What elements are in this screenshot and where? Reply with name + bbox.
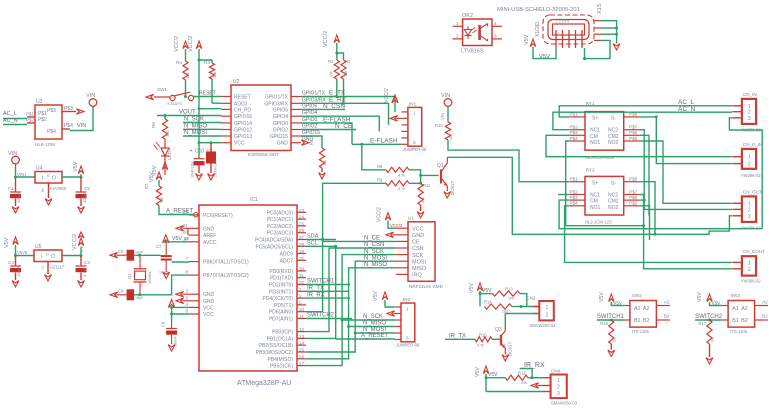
connector JN2 JUMPER-06	[401, 303, 415, 342]
wire P$4 to VIN node	[70, 106, 93, 131]
svg-text:RY2: RY2	[586, 167, 595, 172]
svg-text:V5V: V5V	[613, 300, 623, 305]
svg-text:1 2 3 4 5: 1 2 3 4 5	[556, 20, 569, 24]
svg-text:GPIO15: GPIO15	[302, 130, 320, 136]
SW2 pin stubs	[623, 305, 630, 307]
wire N_MOSI IC1 pin15 to U1 MOSI	[306, 261, 396, 352]
wire RY2 P$7 join	[639, 195, 732, 269]
wire CN2 pin2 to Q3 collector	[505, 314, 539, 328]
net AC_N wire to CN_IN 2	[553, 112, 732, 130]
svg-text:2: 2	[748, 110, 751, 116]
wire JN2 N_MOSI	[355, 332, 395, 334]
svg-text:1: 1	[456, 21, 459, 26]
ground X1 shield	[613, 44, 620, 50]
resistor R13	[480, 293, 492, 295]
svg-text:N_CSN: N_CSN	[364, 242, 384, 248]
svg-text:RY1: RY1	[586, 101, 595, 106]
svg-text:P$6: P$6	[629, 130, 638, 135]
svg-text:CN2: CN2	[526, 296, 536, 301]
resistor R14	[484, 304, 512, 309]
svg-text:V5V: V5V	[524, 34, 530, 45]
svg-text:10k: 10k	[323, 160, 327, 166]
RY1 right pin stubs	[624, 116, 640, 118]
svg-text:V5V: V5V	[539, 54, 550, 60]
svg-text:BC817: BC817	[508, 342, 513, 356]
svg-text:100uF: 100uF	[16, 265, 21, 277]
module U2 ESP8266-SMT	[231, 85, 291, 151]
gnd arrow CN4 pin2	[531, 383, 539, 388]
ground C5	[210, 164, 212, 174]
wire R12 to CN4 pin1	[528, 377, 543, 379]
svg-text:P$3: P$3	[570, 195, 579, 200]
wire VCC rail down to ESP VCC and C10	[198, 60, 200, 157]
resistor R9	[386, 181, 409, 186]
power module U3 HLK-10W	[35, 105, 62, 139]
svg-text:V5V: V5V	[469, 283, 475, 293]
X1 shield pins right	[594, 20, 601, 22]
svg-text:VIN: VIN	[8, 151, 17, 157]
svg-text:NC2: NC2	[608, 192, 618, 198]
svg-text:OK2: OK2	[462, 13, 473, 19]
wire C9 to XTAL2	[134, 275, 189, 295]
wire trunk riser to RY2 S-	[639, 182, 655, 235]
supply V5V arrow U5 input	[13, 237, 18, 245]
svg-text:SWITCH2: SWITCH2	[307, 313, 335, 319]
svg-text:VIN: VIN	[440, 113, 445, 120]
wire SCL to pin13 via harness	[306, 246, 336, 338]
svg-text:AZ1117: AZ1117	[50, 265, 65, 270]
svg-text:PD0(RXD): PD0(RXD)	[269, 269, 293, 275]
ground R11	[420, 205, 422, 211]
svg-text:ATMega328P-AU: ATMega328P-AU	[237, 380, 291, 387]
svg-text:ESP8266-SMT: ESP8266-SMT	[248, 152, 279, 157]
svg-text:PB2(SS/OC1B): PB2(SS/OC1B)	[259, 343, 294, 349]
svg-text:CN4: CN4	[551, 369, 561, 374]
svg-text:IR_RX: IR_RX	[307, 292, 325, 298]
svg-text:P$4: P$4	[570, 201, 579, 206]
wire N_CE IC1 pin10 to U1 CE	[306, 241, 396, 311]
svg-text:6: 6	[413, 140, 416, 145]
svg-text:GPIO0: GPIO0	[273, 121, 289, 127]
ground C10	[198, 165, 200, 173]
pin P$1 AC_L	[27, 116, 35, 118]
microcontroller IC1 ATMega328P-AU	[199, 205, 297, 371]
svg-text:N_MISO: N_MISO	[184, 123, 207, 129]
wire RESET from SW1 to U2	[194, 96, 221, 98]
svg-text:P$4: P$4	[570, 136, 579, 141]
wire A_RESET to JN2 pin6	[336, 338, 395, 340]
svg-text:ADC0: ADC0	[234, 101, 248, 107]
svg-text:A2: A2	[762, 300, 768, 305]
svg-text:JUMPER-06: JUMPER-06	[403, 147, 427, 152]
supply node VIN circle	[89, 99, 97, 107]
svg-text:PB3(MOSI/OC2): PB3(MOSI/OC2)	[256, 350, 294, 356]
svg-text:CM: CM	[590, 199, 598, 205]
wire SW1 left	[154, 96, 170, 98]
gnd arrow JN2 pin2	[387, 311, 395, 316]
svg-text:1: 1	[748, 201, 751, 207]
svg-text:C6: C6	[161, 321, 166, 327]
svg-text:PC2(ADC2): PC2(ADC2)	[267, 224, 294, 230]
svg-text:PC0(ADC0): PC0(ADC0)	[267, 210, 294, 216]
svg-text:AC_N: AC_N	[3, 118, 18, 124]
wire ADC0	[212, 102, 221, 104]
svg-text:CN_EOUT: CN_EOUT	[743, 249, 765, 254]
connector CN2 SMAW250-02	[533, 306, 539, 308]
svg-text:GPIO1/TX: GPIO1/TX	[302, 91, 326, 97]
svg-text:ADC6: ADC6	[280, 252, 294, 258]
net AC_L wire to CN_IN 1	[559, 106, 732, 117]
svg-text:N_SCK: N_SCK	[184, 117, 204, 123]
OK2 internal LED	[467, 26, 469, 29]
net SWITCH2 wire	[306, 318, 352, 320]
svg-text:GPIO5: GPIO5	[302, 103, 318, 109]
wire R9 to SDA net	[323, 183, 386, 239]
wire U4 output to V5V	[62, 176, 81, 178]
supply VCC/2 arrow right	[196, 41, 201, 49]
wire R13 to CN2 pin1	[520, 294, 539, 307]
svg-text:P$2: P$2	[570, 125, 579, 130]
svg-text:NC1: NC1	[590, 192, 600, 198]
svg-text:Q3: Q3	[495, 327, 502, 333]
wire AREF to gnd	[187, 228, 189, 235]
svg-text:YW396-02: YW396-02	[741, 278, 761, 283]
svg-text:ITS-1105: ITS-1105	[632, 329, 650, 334]
svg-text:AC_N: AC_N	[678, 106, 696, 113]
wire RY1 P$7 down	[639, 130, 732, 210]
svg-text:AVCC: AVCC	[203, 240, 217, 246]
svg-text:NC2: NC2	[608, 128, 618, 134]
svg-text:VCC/2: VCC/2	[384, 88, 390, 103]
svg-text:2: 2	[748, 267, 751, 273]
svg-text:Q1: Q1	[437, 163, 444, 169]
wire AC_N	[3, 124, 27, 126]
svg-text:4.7uF: 4.7uF	[82, 266, 87, 277]
ground C1	[15, 199, 17, 207]
supply VCC/2 arrow U1	[385, 213, 390, 221]
svg-text:330uF: 330uF	[16, 191, 21, 203]
svg-text:SCL: SCL	[307, 240, 318, 246]
regulator U5 AZ1117	[34, 250, 62, 262]
IC1 left pin stubs	[189, 214, 199, 216]
capacitor C3	[80, 256, 82, 267]
svg-text:U1: U1	[408, 216, 414, 221]
svg-text:A_RESET: A_RESET	[166, 209, 194, 215]
svg-text:IT-1187S: IT-1187S	[166, 101, 182, 106]
wire V5V rail IR TX	[479, 291, 481, 307]
wire V5V to U5 input	[16, 245, 35, 256]
svg-text:IC1: IC1	[250, 197, 258, 203]
wire RY1 P$3 to CN_E_IN 1	[546, 135, 732, 156]
supply V5V arrow LED1	[164, 156, 166, 175]
net SWITCH2 wire SW3	[695, 319, 722, 321]
supply VCC/2 arrow left	[183, 41, 188, 49]
svg-text:GPIO1/TX: GPIO1/TX	[265, 95, 289, 101]
RY2 left pin stubs	[569, 181, 585, 183]
svg-text:SW2: SW2	[632, 293, 642, 298]
supply V5V arrow X1	[530, 39, 535, 47]
svg-text:B2: B2	[664, 314, 670, 319]
net SWITCH1 wire SW2	[597, 319, 624, 321]
ground R5	[321, 168, 323, 172]
RY2 right pin stubs	[624, 181, 640, 183]
supply V5V arrow SW2	[609, 294, 614, 302]
svg-text:2: 2	[748, 162, 751, 168]
wire to XTAL1 pin7	[172, 261, 189, 263]
svg-text:R12: R12	[518, 371, 526, 376]
wire V5V rail IR RX	[485, 374, 487, 392]
ground C7	[165, 261, 167, 273]
svg-text:V5V: V5V	[172, 236, 182, 242]
net label SCL	[306, 245, 336, 247]
OK2 pin wires	[453, 25, 463, 27]
wire VOUT to R6	[164, 116, 166, 120]
svg-text:3: 3	[185, 289, 188, 294]
svg-text:G: G	[46, 253, 49, 257]
svg-text:LTV816S: LTV816S	[461, 49, 484, 55]
U2 left pin stubs	[221, 96, 231, 98]
svg-text:P$3: P$3	[47, 108, 56, 114]
svg-text:A_RESET: A_RESET	[361, 333, 389, 339]
svg-text:R7: R7	[144, 183, 149, 189]
wire AC_L	[3, 118, 27, 120]
svg-text:C8: C8	[118, 249, 124, 254]
svg-text:R16: R16	[600, 321, 608, 326]
svg-text:PB7(XTAL2/TOSC2): PB7(XTAL2/TOSC2)	[203, 273, 249, 279]
svg-text:R11: R11	[423, 183, 431, 188]
net label N_MOSI	[183, 135, 221, 137]
svg-text:R2: R2	[328, 59, 334, 64]
svg-text:GND: GND	[203, 226, 215, 232]
svg-text:VCC: VCC	[203, 305, 214, 311]
svg-text:C3: C3	[84, 260, 90, 265]
svg-text:PD7(AIN1): PD7(AIN1)	[269, 317, 294, 323]
pin P$2 AC_N	[27, 122, 35, 124]
pin P$4 VIN output	[62, 128, 70, 130]
svg-text:1: 1	[546, 305, 549, 311]
svg-text:R13: R13	[505, 287, 513, 292]
svg-text:B1: B1	[634, 318, 641, 324]
svg-text:GPIO4: GPIO4	[302, 110, 318, 116]
capacitor C4	[15, 256, 17, 267]
svg-text:GND: GND	[203, 292, 215, 298]
svg-text:PC1(ADC1): PC1(ADC1)	[267, 217, 294, 223]
svg-text:2: 2	[546, 313, 549, 319]
svg-text:S+: S+	[592, 116, 598, 122]
svg-text:VIN: VIN	[441, 93, 450, 99]
svg-text:1: 1	[141, 264, 143, 268]
svg-text:GPIO4: GPIO4	[273, 114, 289, 120]
svg-text:P$3: P$3	[570, 130, 579, 135]
svg-text:R10: R10	[435, 123, 443, 128]
ground U5	[47, 262, 49, 275]
wire V5V to AVCC	[166, 241, 189, 243]
junction dots harness	[341, 319, 344, 322]
svg-text:NC1: NC1	[590, 128, 600, 134]
svg-text:CN_OUT: CN_OUT	[743, 189, 762, 194]
wire V5V to usb VBUS	[533, 47, 556, 59]
gnd arrow U1 GND	[386, 232, 394, 237]
svg-text:S+: S+	[592, 180, 598, 186]
svg-text:I: I	[42, 176, 43, 182]
resistor R12	[486, 377, 505, 379]
svg-text:R15: R15	[479, 332, 487, 337]
svg-text:AREF: AREF	[203, 233, 216, 239]
svg-text:10k: 10k	[344, 71, 348, 77]
supply node VIN circle 2	[12, 156, 20, 164]
svg-text:CN_E_IN: CN_E_IN	[743, 142, 762, 147]
connector CN_EOUT YW396-02	[742, 256, 756, 275]
svg-text:VCC/2: VCC/2	[174, 36, 180, 52]
svg-text:V5V: V5V	[73, 161, 79, 172]
connector CN_OUT YW396-03	[742, 196, 756, 222]
supply V5V arrow SW3	[707, 294, 712, 302]
svg-text:VCC/2: VCC/2	[72, 234, 78, 250]
svg-text:E-FLASH: E-FLASH	[370, 138, 398, 145]
svg-text:P$6: P$6	[629, 195, 638, 200]
svg-text:4: 4	[494, 21, 497, 26]
svg-text:3: 3	[748, 116, 751, 122]
supply V5V arrow JN2	[382, 292, 387, 300]
resistor R8	[386, 167, 409, 172]
wire R4 to RESET net	[185, 80, 187, 97]
ground R16	[610, 344, 612, 350]
ground C4	[15, 273, 17, 281]
svg-text:C4: C4	[8, 260, 14, 265]
svg-text:U2: U2	[233, 79, 240, 85]
svg-text:3: 3	[748, 214, 751, 220]
svg-text:18: 18	[184, 236, 189, 241]
svg-text:ADC7: ADC7	[280, 258, 294, 264]
svg-text:KIA7805: KIA7805	[50, 186, 67, 191]
svg-text:1: 1	[557, 378, 560, 384]
svg-text:O: O	[52, 176, 56, 182]
wire N_MISO IC1 pin16 to U1 MISO	[306, 268, 396, 359]
svg-text:PD6(AIN0): PD6(AIN0)	[269, 310, 294, 316]
svg-text:PD2(INT0): PD2(INT0)	[269, 283, 293, 289]
svg-text:GND: GND	[277, 141, 289, 147]
svg-text:HL3-2CM-A230: HL3-2CM-A230	[585, 155, 615, 160]
switch SW3 ITS-1105	[728, 301, 755, 328]
svg-text:4: 4	[185, 302, 188, 307]
svg-text:16MHz: 16MHz	[147, 271, 152, 284]
module U1 NRF24L01-SMD	[408, 222, 435, 281]
svg-text:10k: 10k	[185, 73, 190, 79]
wire crystal pin1	[139, 255, 141, 269]
svg-text:P$3: P$3	[64, 106, 73, 112]
svg-text:S-: S-	[611, 116, 616, 122]
svg-text:GPIO13: GPIO13	[234, 134, 252, 140]
svg-text:5: 5	[185, 295, 188, 300]
svg-text:R9: R9	[377, 178, 383, 183]
wire VCC from rail	[199, 142, 221, 144]
svg-text:47k: 47k	[422, 197, 426, 203]
ground C3	[80, 273, 82, 281]
svg-text:7: 7	[185, 256, 188, 261]
svg-text:R17: R17	[699, 321, 707, 326]
svg-text:A2: A2	[643, 306, 650, 312]
svg-text:JUMPER-06: JUMPER-06	[396, 343, 420, 348]
wire RY2 P$1 stub	[566, 181, 570, 183]
supply V5V arrow R7	[156, 172, 161, 180]
svg-text:VIN: VIN	[86, 93, 95, 99]
wire R10 to RY2 S+ trunk	[448, 140, 566, 182]
svg-text:R14: R14	[484, 300, 492, 305]
gnd arrow C9	[110, 292, 118, 297]
connector CN4 SMAW250-03	[551, 375, 567, 399]
wire N_SCK IC1 pin17 to U1 SCK	[306, 255, 396, 366]
svg-text:10k: 10k	[212, 72, 217, 78]
switch SW2 ITS-1105	[630, 301, 657, 328]
supply V5V arrow VCC pins	[168, 300, 175, 308]
svg-text:X1G$1: X1G$1	[535, 21, 541, 37]
svg-text:P$5: P$5	[629, 201, 638, 206]
gnd arrows IC1 pins 3 5	[176, 292, 184, 297]
svg-text:V5V: V5V	[149, 172, 155, 182]
svg-text:MOSI: MOSI	[412, 259, 427, 265]
svg-text:CSN: CSN	[412, 246, 424, 252]
svg-text:PB0(ICP): PB0(ICP)	[272, 330, 293, 336]
capacitor C6	[171, 322, 173, 329]
svg-text:VCC/2: VCC/2	[188, 36, 194, 52]
supply V5V arrow AVCC	[163, 235, 170, 243]
net IR_TX label stub	[445, 338, 475, 340]
svg-text:18pF: 18pF	[135, 296, 144, 300]
LED LED1	[164, 139, 166, 148]
svg-text:10k: 10k	[160, 197, 164, 203]
svg-text:2: 2	[456, 34, 459, 39]
supply VCC/2 arrow JN1	[392, 95, 398, 103]
svg-text:1: 1	[413, 111, 416, 116]
relay RY2 HL2-2CM-12S	[585, 176, 624, 215]
svg-text:CN_IN: CN_IN	[743, 92, 757, 97]
svg-text:VOUT: VOUT	[179, 110, 196, 116]
svg-text:JN1: JN1	[408, 102, 417, 107]
svg-text:SCK: SCK	[412, 253, 424, 259]
wire VCC/2 to R4	[185, 49, 187, 61]
wire JN2 N_MISO	[349, 326, 395, 328]
gnd arrow JN1 pin2	[390, 116, 398, 121]
svg-text:PB1(OC1A): PB1(OC1A)	[267, 336, 294, 342]
svg-text:NO2: NO2	[608, 140, 619, 146]
svg-text:2: 2	[748, 207, 751, 213]
supply V5V arrow IR TX	[477, 283, 482, 291]
svg-text:10k: 10k	[711, 337, 715, 343]
wire VCC/2 to R1 R2	[336, 43, 338, 60]
U2 right pin stubs	[291, 96, 301, 98]
wire RY2 P$2 stub	[558, 194, 569, 196]
wire R8 R9 to Q1 base	[409, 170, 421, 184]
svg-text:SWITCH1: SWITCH1	[307, 279, 335, 285]
svg-text:A2: A2	[741, 306, 748, 312]
ground Q3 emitter	[504, 348, 506, 355]
svg-text:GPIO16: GPIO16	[234, 114, 252, 120]
svg-text:2: 2	[141, 284, 143, 288]
svg-text:YW396-02: YW396-02	[741, 173, 761, 178]
svg-text:P$5: P$5	[629, 136, 638, 141]
wire VCC/2 to U1 VCC	[388, 221, 396, 229]
svg-text:3: 3	[557, 391, 560, 397]
svg-text:NO1: NO1	[590, 140, 601, 146]
svg-text:LED1: LED1	[167, 148, 172, 160]
svg-text:6: 6	[185, 309, 188, 314]
svg-text:P$2: P$2	[38, 117, 47, 123]
svg-text:VIN: VIN	[77, 123, 86, 129]
svg-text:AC_L: AC_L	[678, 99, 695, 106]
gnd arrow IC1 pin21	[176, 226, 184, 231]
capacitor C2	[80, 177, 82, 192]
svg-text:N_MOSI: N_MOSI	[184, 130, 207, 136]
